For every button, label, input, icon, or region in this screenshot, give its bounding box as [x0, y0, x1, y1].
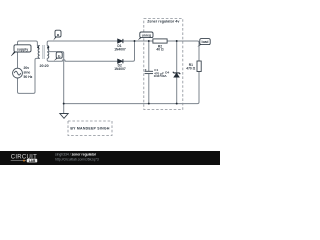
svg-text:sine: sine [24, 70, 31, 74]
resistor R2 [153, 39, 167, 43]
transformer phase dots [37, 46, 39, 48]
junction: ground on bottom rail [63, 103, 65, 105]
junction: C1 on top rail [148, 40, 150, 42]
voltage source V1 [13, 68, 23, 78]
wire: secondary bottom to D2 anode with hop over center tap [47, 58, 117, 61]
svg-text:load: load [202, 40, 209, 44]
svg-text:1N4730A: 1N4730A [154, 74, 168, 78]
wire: transformer primary bottom to V1 bottom [18, 58, 40, 93]
wire: secondary top to D1 anode (top rail left) [47, 41, 117, 46]
svg-text:D4: D4 [165, 70, 169, 74]
wire: C1 vertical [148, 41, 150, 71]
junction: D4 on top rail [176, 40, 178, 42]
junction: D2 riser on top rail [134, 40, 136, 42]
callout unreg [138, 32, 153, 40]
dashed annotation box: Zener regulator [144, 19, 183, 110]
junction: C1 on bottom rail [148, 103, 150, 105]
capacitor C1 [145, 69, 153, 74]
diode D2 [118, 59, 123, 63]
callout a [53, 30, 61, 40]
dashed credit box: BY MANDEEP SINGH [68, 121, 112, 136]
footer bar [0, 151, 220, 165]
ground [60, 114, 68, 119]
svg-text:Zener regulator 4v: Zener regulator 4v [147, 19, 180, 23]
primary coil [38, 46, 40, 59]
svg-text:LAB: LAB [29, 159, 36, 163]
wire: D2 cathode up to top rail [123, 41, 134, 61]
svg-text:40 Ω: 40 Ω [156, 48, 164, 52]
transformer T1 [38, 46, 49, 59]
secondary coil [47, 46, 49, 59]
svg-text:470 Ω: 470 Ω [186, 67, 195, 71]
diode D1 [118, 39, 123, 43]
callout b [54, 52, 62, 61]
svg-text:http://circuitlab.com/c/6kzq73: http://circuitlab.com/c/6kzq73 [55, 157, 99, 161]
transformer core [43, 45, 45, 59]
wire: center tap to ground rail [47, 52, 64, 114]
wire: bottom ground rail [64, 72, 199, 104]
wire: D4 vertical [176, 41, 178, 104]
wire: D1 cathode to load corner (top rail right) [123, 41, 199, 61]
svg-text:1N4007: 1N4007 [114, 67, 126, 71]
svg-text:supply: supply [17, 47, 28, 51]
svg-text:singh334 / zener regulator: singh334 / zener regulator [55, 152, 97, 156]
svg-text:1N4007: 1N4007 [114, 47, 126, 51]
svg-text:20:20: 20:20 [39, 64, 48, 68]
zener diode D4 [173, 72, 181, 77]
junction: D4 on bottom rail [176, 103, 178, 105]
svg-text:unreg: unreg [142, 33, 151, 37]
wire: V1 top to transformer primary top [18, 41, 40, 68]
callout load [197, 39, 210, 47]
svg-text:BY MANDEEP SINGH: BY MANDEEP SINGH [70, 127, 109, 131]
resistor R1 [197, 61, 201, 72]
svg-text:20v: 20v [24, 66, 30, 70]
callout supply [11, 45, 31, 56]
svg-text:50 Hz: 50 Hz [24, 75, 33, 79]
